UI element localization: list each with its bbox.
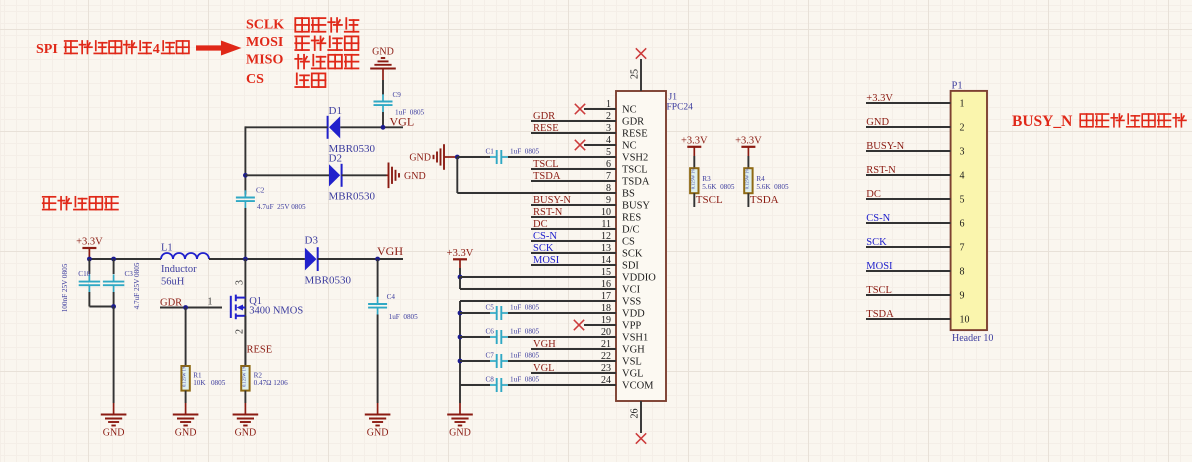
svg-text:C3: C3 (125, 270, 134, 278)
net label VGH (boost output) (377, 244, 403, 258)
wire pin 9 (BUSY-N) (531, 204, 616, 206)
svg-text:VGL: VGL (390, 114, 415, 128)
svg-text:6: 6 (960, 219, 965, 230)
svg-text:VSL: VSL (622, 357, 642, 368)
net label BUSY-N (P1 pin 3) (866, 141, 904, 152)
svg-text:RESE: RESE (247, 345, 273, 356)
wire R2 bottom (244, 391, 246, 403)
svg-text:C7: C7 (486, 352, 495, 360)
junction pin 15 tap (458, 275, 463, 280)
wire pin 17 (VSS) (460, 300, 616, 302)
svg-text:26: 26 (630, 409, 641, 419)
svg-text:1uF 0805: 1uF 0805 (510, 376, 540, 384)
svg-text:4.7uF 25V 0805: 4.7uF 25V 0805 (133, 262, 141, 309)
svg-text:RST-N: RST-N (533, 207, 563, 218)
no-connect X pin 1 (575, 104, 585, 114)
net label DC (J1 pin 11) (533, 219, 548, 230)
capacitor C7 (486, 352, 540, 369)
power port GND (under C10/C3) (101, 403, 127, 439)
svg-text:TSCL: TSCL (533, 159, 559, 170)
net label GDR (J1 pin 2) (533, 111, 555, 122)
svg-text:Header 10: Header 10 (952, 333, 993, 344)
net label VGL (J1 pin 23) (533, 363, 555, 374)
svg-text:GND: GND (404, 171, 426, 182)
svg-text:MOSI: MOSI (533, 255, 560, 266)
svg-text:MOSI: MOSI (246, 35, 283, 50)
wire pin 12 (CS-N) (531, 240, 616, 242)
capacitor C3 (103, 262, 141, 309)
junction VGH node (375, 257, 380, 262)
junction R1 tap (183, 305, 188, 310)
capacitor C2 (236, 187, 306, 212)
junction rail at C7 (458, 359, 490, 364)
svg-text:SCK: SCK (866, 237, 887, 248)
junction VGL node (381, 125, 386, 130)
wire C8 to J1 pin 24 (508, 384, 616, 386)
net label SCK (P1 pin 7) (866, 237, 887, 248)
svg-text:VGH: VGH (377, 244, 403, 258)
power port GND (under C4) (365, 403, 391, 439)
svg-text:J1: J1 (669, 93, 678, 103)
wire P1 pin 7 (SCK) (866, 246, 951, 248)
junction C10/C3 ground join (111, 304, 116, 309)
wire pin 2 (GDR) (531, 120, 616, 122)
junction +3.3V / C10 (87, 257, 92, 262)
svg-text:2: 2 (235, 329, 246, 334)
connector J1 pin numbers 1-24 (601, 99, 611, 386)
svg-text:+3.3V: +3.3V (447, 248, 474, 259)
svg-text:VSH1: VSH1 (622, 333, 648, 344)
wire C4 bottom (377, 315, 379, 404)
capacitor C6 (486, 328, 540, 345)
pin 25 stem and number (630, 59, 642, 91)
wire pin 4 stub (584, 144, 616, 146)
wire C10 bottom to join (89, 292, 113, 307)
svg-text:C8: C8 (486, 376, 495, 384)
wire R3 top (693, 156, 695, 168)
annotation: MOSI line (246, 35, 358, 50)
svg-text:VSS: VSS (622, 297, 641, 308)
annotation: e-ink driver label (Chinese) (43, 197, 118, 210)
wire R1 bottom (185, 391, 187, 403)
transistor Q1 (231, 295, 304, 320)
wire C5 to J1 pin 18 (508, 312, 616, 314)
svg-text:NC: NC (622, 105, 637, 116)
svg-text:TSDA: TSDA (622, 177, 650, 188)
inductor L1 (161, 243, 209, 288)
svg-text:BUSY-N: BUSY-N (866, 141, 904, 152)
wire D2 anode (245, 174, 329, 176)
svg-text:0.125W 1%: 0.125W 1% (690, 168, 695, 190)
capacitor C1 (486, 148, 540, 165)
svg-text:+3.3V: +3.3V (76, 237, 103, 248)
diode D1 (328, 105, 376, 155)
svg-text:4: 4 (960, 171, 965, 182)
net label TSCL (P1 pin 9) (866, 285, 892, 296)
net label CS-N (P1 pin 6) (866, 213, 890, 224)
wire P1 pin 2 (GND) (866, 126, 951, 128)
wire D2 cathode to GND (342, 174, 387, 176)
wire pin 3 (RESE) (531, 132, 616, 134)
wire C9 to VGL node (382, 112, 384, 127)
net label VGL (top) (390, 114, 415, 128)
net label GND (P1 pin 2) (866, 117, 889, 128)
power port +3.3V (left) (76, 237, 103, 260)
capacitor C9 (374, 91, 425, 117)
svg-text:RESE: RESE (533, 123, 559, 134)
svg-text:9: 9 (960, 291, 965, 302)
no-connect X pin 25 (636, 48, 646, 58)
svg-text:BUSY-N: BUSY-N (533, 195, 571, 206)
wire VGL row (D1 anode to end) (340, 126, 403, 128)
wire pin 1 stub (584, 108, 616, 110)
svg-text:TSCL: TSCL (866, 285, 892, 296)
svg-text:RESE: RESE (622, 129, 648, 140)
svg-text:C10: C10 (78, 270, 90, 278)
resistor R2 (241, 365, 288, 390)
wire pin 15 (VDDIO) (460, 276, 616, 278)
net label RESE (J1 pin 3) (533, 123, 559, 134)
svg-text:TSDA: TSDA (533, 171, 561, 182)
wire P1 pin 1 (+3.3V) (866, 102, 951, 104)
net label TSDA (P1 pin 10) (866, 309, 894, 320)
svg-text:+3.3V: +3.3V (735, 135, 762, 146)
net label RESE (Q1 source) (247, 345, 273, 356)
wire pin 7 (TSDA) (531, 180, 616, 182)
svg-text:MOSI: MOSI (866, 261, 893, 272)
svg-text:BS: BS (622, 189, 635, 200)
net label TSCL (J1 pin 6) (533, 159, 559, 170)
connector J1 (FPC24) body (616, 91, 693, 401)
wire +3.3V down to pin 16 (459, 277, 461, 289)
svg-text:1uF 0805: 1uF 0805 (389, 313, 419, 321)
svg-text:MBR0530: MBR0530 (305, 274, 352, 286)
wire P1 pin 10 (TSDA) (866, 318, 951, 320)
svg-text:C4: C4 (387, 293, 396, 301)
pin number 2 (Q1 source) (235, 329, 246, 334)
svg-text:VGL: VGL (622, 369, 644, 380)
wire C3 top lead (113, 259, 115, 274)
svg-text:DC: DC (866, 189, 881, 200)
svg-text:SCK: SCK (533, 243, 554, 254)
connector P1 (Header 10) body (951, 81, 994, 345)
net label TSCL (R3) (696, 194, 723, 206)
svg-text:BUSY_N: BUSY_N (1012, 113, 1072, 130)
power port GND (above C9) (370, 47, 396, 81)
wire pin 10 (RST-N) (531, 216, 616, 218)
svg-text:VCI: VCI (622, 285, 641, 296)
svg-text:CS-N: CS-N (533, 231, 557, 242)
svg-text:VDDIO: VDDIO (622, 273, 656, 284)
capacitor C10 (61, 263, 100, 312)
svg-text:Inductor: Inductor (161, 264, 197, 275)
power port +3.3V (R4) (735, 135, 762, 156)
wire pin 6 (TSCL) (531, 168, 616, 170)
wire Q1 drain and source rail (244, 259, 246, 366)
diode D2 (329, 153, 376, 203)
svg-text:VCOM: VCOM (622, 381, 654, 392)
no-connect X pin 4 (575, 140, 585, 150)
wire Q1 source (244, 316, 246, 366)
svg-text:SCLK: SCLK (246, 18, 284, 33)
diode D3 (305, 235, 352, 287)
svg-text:DC: DC (533, 219, 548, 230)
annotation: SCLK line (246, 18, 358, 33)
svg-text:C2: C2 (256, 187, 265, 195)
wire C10 top lead (88, 259, 90, 274)
net label BUSY-N (J1 pin 9) (533, 195, 571, 206)
svg-text:TSCL: TSCL (696, 194, 723, 206)
wire P1 pin 9 (TSCL) (866, 294, 951, 296)
svg-text:CS: CS (246, 72, 264, 87)
svg-text:100nF 25V 0805: 100nF 25V 0805 (61, 263, 69, 312)
wire pin 5 right segment (508, 156, 616, 158)
wire pin 13 (SCK) (531, 252, 616, 254)
svg-text:GND: GND (409, 153, 431, 164)
svg-text:GDR: GDR (622, 117, 644, 128)
wire GND node down to pin 8 row (456, 157, 458, 193)
wire C6 to J1 pin 20 (508, 336, 616, 338)
svg-text:5.6K 0805: 5.6K 0805 (756, 183, 789, 191)
wire ground rail (VSS to C8) (459, 301, 461, 385)
wire C9 top lead (382, 80, 384, 95)
svg-text:5.6K 0805: 5.6K 0805 (702, 183, 735, 191)
svg-text:TSDA: TSDA (866, 309, 894, 320)
svg-text:GND: GND (866, 117, 889, 128)
resistor R4 (744, 168, 789, 194)
wire P1 pin 6 (CS-N) (866, 222, 951, 224)
wire C3 bottom lead (113, 292, 115, 307)
resistor R1 (181, 365, 225, 390)
svg-text:CS-N: CS-N (866, 213, 890, 224)
svg-text:5: 5 (960, 195, 965, 206)
no-connect X pin 19 (574, 320, 584, 330)
net label CS-N (J1 pin 12) (533, 231, 557, 242)
capacitor C8 (486, 376, 540, 393)
wire D1 cathode to left rail (245, 126, 327, 128)
power port GND (under R1) (173, 403, 199, 439)
wire rail to GND (459, 385, 461, 403)
wire P1 pin 8 (MOSI) (866, 270, 951, 272)
capacitor C5 (486, 304, 540, 321)
capacitor C4 (368, 293, 418, 321)
svg-text:BUSY: BUSY (622, 201, 650, 212)
connector J1 pin names (622, 105, 656, 392)
junction boost node (L1/Q1/C2) (243, 257, 248, 262)
wire R4 bottom (747, 193, 749, 207)
svg-text:MBR0530: MBR0530 (329, 191, 376, 203)
svg-text:0.47Ω 1206: 0.47Ω 1206 (254, 379, 288, 387)
wire D3 cathode / VGH row (318, 258, 403, 260)
pin number 1 (Q1 gate) (208, 297, 213, 308)
svg-text:C1: C1 (486, 148, 495, 156)
power port +3.3V (R3) (681, 135, 708, 156)
svg-text:D1: D1 (329, 105, 342, 117)
svg-text:SCK: SCK (622, 249, 643, 260)
svg-text:SDI: SDI (622, 261, 639, 272)
pin 26 stem and number (630, 401, 642, 433)
svg-text:C6: C6 (486, 328, 495, 336)
wire pin 8 (BS) (457, 192, 616, 194)
svg-text:GND: GND (449, 428, 471, 439)
net label SCK (J1 pin 13) (533, 243, 554, 254)
svg-text:FPC24: FPC24 (667, 103, 694, 113)
svg-text:1: 1 (208, 297, 213, 308)
net label TSDA (R4) (750, 194, 779, 206)
wire R3 bottom (693, 193, 695, 207)
junction GND/C1 node (455, 155, 460, 160)
svg-text:C5: C5 (486, 304, 495, 312)
power port GND (under R2) (233, 403, 259, 439)
junction rail at C5 (458, 311, 490, 316)
svg-text:GND: GND (235, 428, 257, 439)
svg-text:L1: L1 (161, 243, 173, 254)
svg-text:TSDA: TSDA (750, 194, 779, 206)
svg-text:1uF 0805: 1uF 0805 (510, 328, 540, 336)
connector P1 pin numbers (960, 99, 970, 326)
wire R1 top (185, 308, 187, 367)
net label VGH (J1 pin 21) (533, 339, 556, 350)
power port GND (right of D2) (387, 163, 426, 189)
wire P1 pin 5 (DC) (866, 198, 951, 200)
svg-text:+3.3V: +3.3V (866, 93, 893, 104)
svg-text:GND: GND (367, 428, 389, 439)
wire P1 pin 3 (BUSY-N) (866, 150, 951, 152)
wire pin 5 left segment (457, 156, 490, 158)
svg-text:1uF 0805: 1uF 0805 (510, 304, 540, 312)
svg-text:VDD: VDD (622, 309, 645, 320)
svg-text:25: 25 (630, 69, 641, 79)
net label MOSI (J1 pin 14) (533, 255, 560, 266)
svg-text:0.125W 1%: 0.125W 1% (744, 168, 749, 190)
svg-text:7: 7 (960, 243, 965, 254)
svg-text:4.7uF 25V 0805: 4.7uF 25V 0805 (257, 203, 306, 211)
wire pin 11 (DC) (531, 228, 616, 230)
svg-text:D2: D2 (329, 153, 342, 165)
svg-text:0.125W 1%: 0.125W 1% (182, 365, 187, 387)
net label +3.3V (P1 pin 1) (866, 93, 893, 104)
corner rail at C8 (460, 384, 490, 386)
power port +3.3V (J1 VDDIO/VCI) (447, 248, 474, 268)
svg-text:10K 0805: 10K 0805 (193, 379, 226, 387)
svg-text:4: 4 (153, 42, 160, 57)
svg-text:R3: R3 (702, 175, 711, 183)
svg-text:1: 1 (960, 99, 965, 110)
power port GND (left of C1) (409, 144, 455, 170)
wire +3.3V rail to L1 (89, 258, 161, 260)
svg-text:VGL: VGL (533, 363, 555, 374)
svg-text:GND: GND (103, 428, 125, 439)
wire GDR to Q1 gate (160, 307, 222, 309)
no-connect X pin 26 (636, 433, 646, 443)
svg-text:GND: GND (372, 47, 394, 58)
svg-text:D/C: D/C (622, 225, 640, 236)
junction rail at C6 (458, 335, 490, 340)
junction D2 anode node (243, 173, 248, 178)
svg-text:VSH2: VSH2 (622, 153, 648, 164)
wire C2 to boost node (244, 208, 246, 259)
annotation: CS line (246, 72, 325, 87)
svg-text:VPP: VPP (622, 321, 641, 332)
net label GDR (Q1 gate) (160, 298, 182, 309)
svg-text:D3: D3 (305, 235, 319, 247)
wire pin 21 (VGH) (531, 348, 616, 350)
svg-text:3: 3 (960, 147, 965, 158)
svg-text:VGH: VGH (533, 339, 556, 350)
resistor R3 (690, 168, 735, 194)
svg-text:10: 10 (960, 315, 970, 326)
svg-text:C9: C9 (393, 91, 402, 99)
svg-text:MISO: MISO (246, 53, 283, 68)
svg-text:3400 NMOS: 3400 NMOS (249, 306, 303, 317)
net label MOSI (P1 pin 8) (866, 261, 893, 272)
svg-text:1uF 0805: 1uF 0805 (510, 148, 540, 156)
svg-text:+3.3V: +3.3V (681, 135, 708, 146)
svg-text:3: 3 (235, 280, 246, 285)
annotation: SPI control lines note (Chinese) (36, 41, 189, 57)
annotation: BUSY_N busy-low note (1012, 113, 1186, 130)
svg-text:RES: RES (622, 213, 641, 224)
pin number 3 (Q1 drain) (235, 280, 246, 285)
wire pin 23 (VGL) (531, 372, 616, 374)
annotation: MISO line (246, 53, 358, 69)
svg-text:SPI: SPI (36, 42, 58, 57)
svg-text:56uH: 56uH (161, 276, 185, 287)
wire to GND (left) (113, 307, 115, 404)
annotation arrow (red) (196, 41, 242, 56)
svg-text:2: 2 (960, 123, 965, 134)
svg-text:VGH: VGH (622, 345, 645, 356)
svg-text:RST-N: RST-N (866, 165, 896, 176)
svg-text:P1: P1 (952, 81, 963, 92)
net label DC (P1 pin 5) (866, 189, 881, 200)
svg-text:NC: NC (622, 141, 637, 152)
net label RST-N (J1 pin 10) (533, 207, 563, 218)
wire left rail (VGL row down to C2) (244, 126, 246, 194)
svg-text:8: 8 (960, 267, 965, 278)
wire +3.3V stem to pin15 (459, 268, 461, 278)
svg-text:TSCL: TSCL (622, 165, 648, 176)
svg-text:GND: GND (175, 428, 197, 439)
svg-text:1uF 0805: 1uF 0805 (510, 352, 540, 360)
wire pin 14 (MOSI) (531, 264, 616, 266)
power port GND (under C rail) (447, 403, 473, 439)
svg-text:R4: R4 (756, 175, 765, 183)
wire pin 16 (VCI) (460, 288, 616, 290)
wire L1 to D3 (209, 258, 305, 260)
net label TSDA (J1 pin 7) (533, 171, 561, 182)
svg-text:GDR: GDR (533, 111, 555, 122)
wire C4 top lead (377, 259, 379, 297)
wire R4 top (747, 156, 749, 168)
wire pin 19 stub (584, 324, 616, 326)
wire C7 to J1 pin 22 (508, 360, 616, 362)
net label RST-N (P1 pin 4) (866, 165, 896, 176)
wire P1 pin 4 (RST-N) (866, 174, 951, 176)
svg-text:CS: CS (622, 237, 635, 248)
junction C3 tap (111, 257, 116, 262)
svg-text:0.125W 1%: 0.125W 1% (241, 365, 246, 387)
